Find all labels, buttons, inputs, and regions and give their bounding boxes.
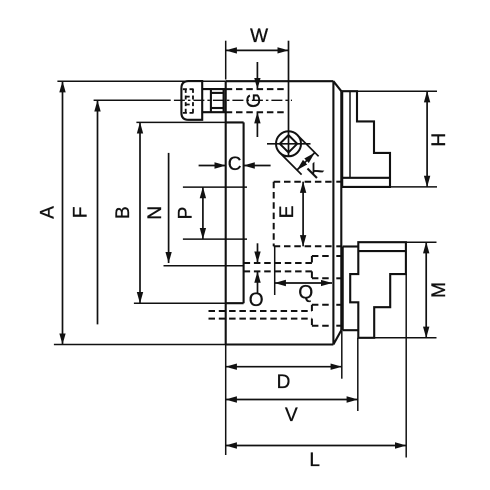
dimension C arrows [199,165,271,167]
screw hole hidden bottom [226,111,287,113]
t-slot 1 hidden step top [311,256,313,263]
svg-text:W: W [250,26,268,47]
body front rim edge [332,81,334,344]
dimension V [226,338,358,411]
top jaw seam [342,177,390,179]
svg-text:B: B [113,206,134,219]
svg-text:M: M [429,282,450,298]
dimension W [226,41,289,80]
dimension A [54,81,226,344]
t-slot 2 hidden inner top [209,310,312,312]
dimension D [226,330,342,455]
mounting screw head [181,81,202,120]
t-slot 1 hidden inner top [244,262,312,264]
key socket crosshair [267,143,311,145]
t-slot 2 hidden step bottom [311,319,313,326]
dimension Q [275,247,332,296]
bottom jaw t-nut [343,247,359,331]
K dimension arrows [297,153,314,170]
dimension F [94,100,171,324]
body chamfer bottom [333,330,341,344]
svg-text:G: G [244,93,265,108]
svg-text:F: F [71,206,92,218]
svg-text:L: L [309,450,320,471]
screw hex socket hidden lines [183,89,195,113]
dimension H [357,91,437,187]
svg-text:N: N [145,206,166,220]
body chamfer top [333,81,341,91]
screw thread lines [211,89,224,112]
svg-text:H: H [429,133,450,147]
dimension M [374,242,436,338]
top jaw outline [342,91,391,187]
central pocket hidden left [273,182,275,247]
rear boss edge [243,122,245,303]
K extension line upper [297,135,318,156]
t-slot 2 hidden outer bottom [312,325,332,327]
dimension P [183,187,247,239]
screw shank [202,89,226,112]
K extension line lower [280,153,302,175]
body front face [340,91,342,330]
dimension B [134,122,226,303]
t-slot 2 hidden step top [311,305,313,311]
dimension G arrows [256,62,258,137]
dimension N [164,153,244,266]
rear boss bottom [226,302,244,304]
svg-text:D: D [277,372,291,393]
central pocket hidden bottom [274,245,332,247]
centre line through socket [288,41,290,156]
top jaw nut seam [349,91,351,178]
screw centre line [174,99,292,101]
svg-text:A: A [38,206,59,219]
t-slot 2 hidden inner bottom [209,318,312,320]
svg-text:Q: Q [298,283,313,304]
t-slot 1 hidden outer top [312,255,332,257]
t-slot 1 hidden inner bottom [244,270,312,272]
key socket square [280,135,297,152]
dimension L [226,274,407,457]
svg-text:V: V [285,405,298,426]
t-slot 2 hidden outer top [312,304,332,306]
svg-text:P: P [175,207,196,220]
key socket circle [276,131,301,156]
central pocket hidden top [274,181,332,183]
dimension E [302,182,304,247]
dimension O arrows [257,243,259,293]
t-slot 1 hidden outer bottom [312,277,332,279]
t-slot 1 hidden step bottom [311,271,313,278]
screw hole hidden top [226,88,287,90]
bottom jaw outline [350,242,406,338]
bottom jaw plate seam [358,250,406,252]
svg-text:O: O [249,290,264,311]
svg-text:E: E [277,206,298,219]
svg-text:C: C [228,154,242,175]
chuck body outline [226,81,334,344]
rear boss top [226,121,244,123]
